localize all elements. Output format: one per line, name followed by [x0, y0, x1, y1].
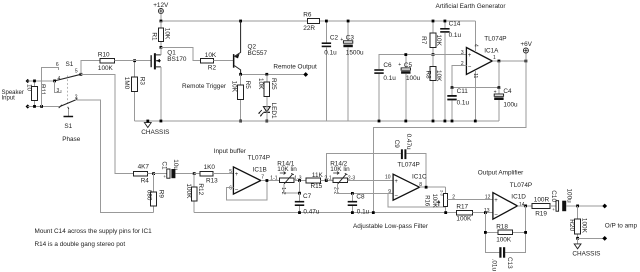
svg-text:5: 5: [229, 169, 232, 175]
svg-text:−: −: [468, 64, 472, 70]
svg-text:R12: R12: [197, 183, 204, 195]
wire 1-3 to wiper tie: [299, 181, 301, 194]
svg-text:100K: 100K: [581, 218, 588, 234]
svg-text:7: 7: [261, 175, 264, 181]
svg-text:R14 is a double gang stereo po: R14 is a double gang stereo pot: [35, 241, 126, 248]
svg-text:10K: 10K: [230, 81, 237, 93]
svg-text:.01u: .01u: [490, 259, 497, 272]
node C11 bottom: [451, 120, 454, 123]
svg-text:0.1u: 0.1u: [383, 75, 396, 82]
svg-text:IC1C: IC1C: [412, 174, 427, 181]
svg-text:+: +: [552, 207, 555, 212]
svg-text:R2: R2: [208, 64, 217, 71]
wire R18 feedback loop: [485, 206, 525, 253]
svg-text:CHASSIS: CHASSIS: [572, 250, 600, 257]
svg-text:C3: C3: [346, 34, 355, 41]
svg-text:R3: R3: [138, 77, 145, 86]
svg-text:+12V: +12V: [153, 2, 169, 9]
svg-text:100K: 100K: [98, 65, 114, 72]
svg-text:R13: R13: [206, 178, 218, 185]
capacitor C4 electrolytic: [494, 88, 518, 121]
switch S1 pole B unused throw to ground: [64, 107, 74, 117]
node Q1 source rail: [160, 120, 163, 123]
pin 11 power IC1A: [472, 70, 478, 121]
resistor R9: [145, 174, 164, 213]
resistor R15: [306, 172, 333, 190]
wire R12 bottom bus: [194, 212, 456, 214]
node R5 bottom: [239, 120, 242, 123]
svg-text:10K: 10K: [435, 35, 442, 47]
svg-text:BC557: BC557: [248, 50, 268, 57]
svg-text:C2: C2: [330, 34, 339, 41]
resistor R2: [201, 52, 233, 71]
svg-text:IC1A: IC1A: [484, 47, 499, 54]
svg-text:10u: 10u: [172, 159, 179, 170]
capacitor C5 electrolytic: [398, 53, 420, 121]
node C7 top: [298, 192, 301, 195]
svg-text:IC1D: IC1D: [511, 193, 526, 200]
op-amp U1D IC1D: [484, 182, 532, 219]
svg-text:22R: 22R: [303, 25, 315, 32]
resistor R4: [134, 163, 154, 184]
capacitor C13: [490, 247, 513, 271]
svg-text:+: +: [340, 37, 343, 43]
wire divider to C6 C5: [379, 55, 433, 70]
svg-text:Artificial Earth Generator: Artificial Earth Generator: [436, 3, 507, 10]
resistor R8: [425, 55, 443, 121]
svg-text:R20: R20: [568, 219, 575, 231]
capacitor C6: [374, 62, 396, 121]
svg-text:R25: R25: [270, 78, 277, 90]
resistor R18: [496, 224, 512, 244]
svg-text:0.47u: 0.47u: [405, 134, 412, 150]
svg-text:C14: C14: [449, 20, 461, 27]
svg-text:+: +: [394, 179, 398, 185]
node +6V bus junction: [372, 211, 375, 214]
resistor R6: [303, 12, 319, 32]
wire R14/1 wiper to C7: [284, 184, 299, 193]
svg-text:R15: R15: [311, 183, 323, 190]
node IC1D pin13: [484, 211, 487, 214]
resistor R20: [568, 206, 588, 238]
node R18 right: [524, 231, 527, 234]
wire +6V distribution to filter bus: [373, 61, 526, 213]
svg-text:9: 9: [388, 189, 391, 195]
svg-text:+: +: [398, 62, 401, 68]
potentiometer R14/2: [324, 160, 355, 194]
node +12V at Q2 emitter: [239, 20, 242, 23]
capacitor C9: [393, 134, 426, 187]
svg-text:2-3: 2-3: [440, 190, 445, 197]
node LED1 bottom: [265, 120, 268, 123]
capacitor C14: [440, 20, 461, 121]
wire C9 from junction: [326, 153, 401, 180]
svg-text:Mount C14 across the supply pi: Mount C14 across the supply pins for IC1: [35, 228, 153, 235]
capacitor C2: [322, 20, 339, 121]
node bottom rail riser: [40, 105, 43, 108]
svg-text:10K: 10K: [205, 52, 217, 59]
svg-text:Input: Input: [2, 96, 16, 102]
svg-text:C10: C10: [550, 190, 557, 202]
node R11 top: [33, 80, 36, 83]
svg-text:3: 3: [57, 88, 60, 94]
node IC1A output: [498, 60, 501, 63]
svg-text:CHASSIS: CHASSIS: [141, 129, 169, 136]
switch S1 mechanical link dashed: [67, 76, 69, 105]
svg-text:100K: 100K: [496, 237, 512, 244]
node IC1C output: [425, 186, 428, 189]
node +12V at R1: [160, 20, 163, 23]
transistor Q2 BC557: [233, 21, 268, 74]
resistor R5: [230, 74, 251, 121]
svg-text:R11: R11: [39, 84, 46, 96]
node IC1B output: [266, 179, 269, 182]
op-amp U1C IC1C: [385, 161, 427, 200]
node Q2 collector: [239, 73, 242, 76]
svg-text:3: 3: [461, 50, 464, 56]
terminal speaker input cold: [26, 104, 30, 108]
svg-text:10K lin: 10K lin: [277, 166, 297, 173]
resistor R3: [123, 61, 145, 121]
switch S1 pole B: [59, 95, 78, 109]
resistor R11: [26, 81, 47, 107]
svg-text:R1: R1: [151, 32, 158, 41]
wire output cold: [578, 237, 605, 239]
svg-text:+: +: [235, 172, 239, 178]
node Q1 drain: [160, 46, 163, 49]
wire IC1A feedback: [452, 61, 499, 88]
svg-text:6: 6: [56, 62, 59, 68]
svg-text:100u: 100u: [406, 75, 421, 82]
svg-text:R16: R16: [423, 195, 429, 207]
node C14 bottom: [444, 120, 447, 123]
svg-text:4: 4: [472, 44, 478, 47]
svg-text:TL074P: TL074P: [484, 35, 506, 42]
wire drain node to R2: [161, 47, 201, 60]
svg-text:+: +: [494, 89, 497, 95]
svg-text:−: −: [494, 212, 498, 218]
node C1 R13 R12 junction: [193, 172, 196, 175]
node C7 bottom bus: [298, 211, 301, 214]
svg-text:12: 12: [485, 195, 491, 201]
capacitor C3 electrolytic: [340, 20, 364, 121]
svg-text:R7: R7: [420, 36, 427, 45]
node IC1D output: [524, 205, 527, 208]
svg-text:6: 6: [229, 186, 232, 192]
wire IC1A output: [492, 60, 526, 62]
svg-text:0.1u: 0.1u: [324, 49, 337, 56]
svg-text:1: 1: [493, 55, 496, 61]
svg-text:2: 2: [452, 195, 455, 201]
svg-text:Remote Output: Remote Output: [273, 63, 317, 70]
wire gate: [135, 60, 151, 62]
node R25 top: [265, 73, 268, 76]
+12V supply terminal: [153, 2, 169, 21]
node R20 bottom: [576, 237, 579, 240]
svg-text:C6: C6: [383, 62, 392, 69]
ground chassis symbol upper: [141, 120, 169, 136]
svg-text:100R: 100R: [534, 197, 550, 204]
svg-text:5: 5: [75, 68, 78, 74]
svg-text:LED1: LED1: [270, 103, 277, 119]
svg-text:10K lin: 10K lin: [330, 166, 350, 173]
svg-text:−: −: [394, 193, 398, 199]
wire +12V rail right of R6: [320, 20, 476, 22]
wire R14/2 wiper to C8 and pin9: [338, 184, 393, 194]
resistor R25: [257, 74, 277, 106]
wire input top rail: [28, 80, 55, 82]
svg-text:S1: S1: [66, 61, 74, 68]
resistor R17: [456, 204, 493, 223]
svg-text:11: 11: [472, 73, 478, 78]
svg-text:R6: R6: [303, 12, 312, 19]
node R16 bottom bus: [444, 211, 447, 214]
svg-text:C13: C13: [506, 257, 513, 269]
svg-text:C7: C7: [303, 193, 312, 200]
transistor Q1 BS170: [151, 47, 187, 121]
node +6V junction: [525, 60, 528, 63]
svg-text:0.1u: 0.1u: [357, 208, 370, 215]
ground chassis symbol lower: [572, 238, 600, 257]
wire IC1D output: [517, 205, 532, 207]
svg-text:10K: 10K: [257, 78, 264, 90]
svg-text:10K: 10K: [435, 70, 442, 82]
capacitor C10 electrolytic: [550, 189, 605, 212]
svg-text:TL074P: TL074P: [248, 154, 270, 161]
resistor R10: [81, 52, 135, 75]
svg-text:TL074P: TL074P: [397, 161, 419, 168]
svg-text:10: 10: [26, 84, 33, 92]
+6V supply terminal: [520, 41, 532, 61]
svg-text:100K: 100K: [431, 194, 437, 208]
svg-text:14: 14: [519, 202, 525, 208]
wire IC1C feedback to R16: [388, 193, 446, 207]
capacitor C7: [295, 193, 320, 215]
svg-text:R19: R19: [535, 210, 547, 217]
wire R16 tap to IC1D pin12: [448, 195, 493, 201]
potentiometer R14/1: [270, 160, 301, 194]
svg-text:C4: C4: [503, 88, 512, 95]
svg-text:C5: C5: [404, 62, 413, 69]
op-amp U1B IC1B: [229, 154, 270, 194]
node C5 bottom: [404, 120, 407, 123]
node C8 bottom bus: [351, 211, 354, 214]
node R3 gate junction: [133, 59, 136, 62]
svg-text:S1: S1: [64, 123, 72, 130]
svg-text:4K7: 4K7: [138, 163, 150, 170]
svg-text:1500u: 1500u: [346, 49, 364, 56]
node feedback right: [498, 86, 501, 89]
resistor R12: [185, 174, 204, 213]
node R7 R8 junction: [432, 53, 435, 56]
wire remote output: [241, 73, 304, 75]
svg-text:10K: 10K: [164, 28, 171, 40]
node R11 bottom: [33, 105, 36, 108]
svg-text:2: 2: [75, 95, 78, 101]
svg-text:R18: R18: [496, 224, 508, 231]
svg-text:R10: R10: [98, 52, 110, 59]
svg-text:Input buffer: Input buffer: [214, 148, 247, 155]
svg-text:C11: C11: [457, 88, 469, 95]
svg-text:13: 13: [484, 208, 490, 214]
svg-text:R5: R5: [244, 81, 251, 90]
svg-text:680: 680: [145, 190, 152, 201]
svg-text:10: 10: [385, 174, 391, 180]
svg-text:2-1: 2-1: [324, 176, 331, 182]
svg-text:Adjustable Low-pass Filter: Adjustable Low-pass Filter: [353, 223, 429, 230]
node C8 top: [351, 192, 354, 195]
svg-text:+6V: +6V: [520, 41, 532, 48]
node S1 pin5: [80, 73, 83, 76]
svg-text:+: +: [468, 53, 472, 59]
wire S1 pin2 down to R9 bus: [77, 100, 154, 212]
wire input bottom rail: [28, 105, 61, 107]
node R18 left: [484, 231, 487, 234]
terminal output hot: [602, 204, 607, 209]
wire +12V rail left of R6: [161, 20, 308, 22]
svg-text:1K0: 1K0: [204, 164, 216, 171]
terminal remote output: [303, 72, 308, 77]
resistor R1: [151, 21, 171, 47]
node R14/1 right: [298, 179, 301, 182]
svg-text:C8: C8: [356, 194, 365, 201]
svg-text:C1: C1: [160, 161, 167, 170]
node R8 bottom: [432, 120, 435, 123]
wire IC1C output: [420, 186, 446, 188]
wire S1 pin5 to R4 input: [81, 74, 134, 173]
capacitor C11: [447, 88, 469, 121]
pin 4 power IC1A: [472, 21, 478, 52]
svg-text:100u: 100u: [503, 102, 518, 109]
capacitor C1 electrolytic: [154, 159, 195, 179]
trimpot R16: [423, 187, 447, 212]
switch S1 pole A: [53, 61, 81, 82]
svg-text:0.1u: 0.1u: [457, 99, 470, 106]
svg-text:R9: R9: [158, 190, 165, 199]
svg-text:100K: 100K: [185, 183, 192, 199]
resistor R7: [420, 20, 442, 55]
capacitor C8: [348, 193, 370, 215]
wire R14/1 right lead: [294, 180, 306, 182]
svg-text:BS170: BS170: [167, 56, 187, 63]
node R15 R14/2 junction: [325, 179, 328, 182]
node feedback left: [451, 86, 454, 89]
terminal output cold: [602, 236, 607, 241]
svg-text:100K: 100K: [456, 215, 472, 222]
svg-text:O/P to amp: O/P to amp: [605, 222, 638, 229]
resistor R19: [532, 197, 556, 218]
svg-text:R8: R8: [425, 71, 432, 80]
resistor R13: [194, 164, 233, 185]
svg-text:Phase: Phase: [62, 136, 81, 143]
svg-text:1-1: 1-1: [270, 176, 277, 182]
svg-text:0.47u: 0.47u: [303, 208, 319, 215]
svg-text:IC1B: IC1B: [253, 166, 267, 173]
svg-text:+: +: [163, 174, 166, 179]
wire to S1 contact 6: [42, 67, 59, 106]
wire R14/2 right to IC1C pin10: [348, 180, 394, 182]
svg-text:C9: C9: [393, 140, 400, 149]
terminal speaker input hot: [26, 79, 30, 83]
wire IC1B output: [261, 180, 280, 182]
node output R20 top: [576, 205, 579, 208]
op-amp U1A IC1A: [461, 35, 507, 74]
svg-text:1M0: 1M0: [123, 77, 130, 90]
wire 0V chassis rail: [135, 120, 499, 122]
wire IC1B feedback: [226, 181, 267, 201]
svg-text:TL074P: TL074P: [510, 182, 532, 189]
svg-text:R4: R4: [141, 178, 150, 185]
svg-text:Output Amplifier: Output Amplifier: [478, 170, 524, 177]
svg-text:+: +: [494, 198, 498, 204]
svg-text:−: −: [235, 188, 239, 194]
LED LED1: [258, 103, 277, 121]
svg-text:11K: 11K: [312, 172, 324, 179]
node R4 C1 R9 junction: [152, 172, 155, 175]
svg-text:Remote Trigger: Remote Trigger: [182, 83, 227, 90]
svg-text:0.1u: 0.1u: [449, 32, 462, 39]
node C6 bottom: [378, 120, 381, 123]
svg-text:100u: 100u: [565, 189, 572, 204]
node pin11 rail: [474, 120, 477, 123]
wire divider to pin3: [433, 54, 466, 56]
svg-text:R17: R17: [456, 204, 468, 211]
wire S1 pin4 to contact 3: [55, 81, 61, 94]
